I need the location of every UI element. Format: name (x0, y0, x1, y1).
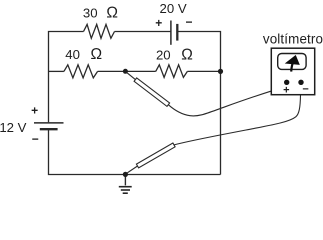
probe P2 tip wire (127, 166, 137, 173)
voltmeter needle arrow (291, 64, 292, 72)
voltmeter U1 box (271, 48, 314, 94)
probe P1 tip wire (127, 72, 136, 79)
svg-text:−: − (32, 132, 39, 146)
svg-text:40: 40 (65, 47, 80, 62)
ground stem (124, 175, 126, 186)
node B junction dot (right rail / middle wire) (218, 69, 223, 74)
voltmeter minus terminal (298, 80, 303, 85)
ground symbol bars (119, 187, 132, 194)
svg-text:−: − (185, 15, 192, 29)
voltmeter plus terminal (284, 80, 289, 85)
svg-text:30: 30 (83, 6, 98, 21)
resistor R3 20ohm zigzag (156, 65, 188, 78)
node G junction dot (ground on bottom wire) (123, 172, 128, 177)
svg-text:Ω: Ω (181, 46, 193, 63)
svg-text:20: 20 (156, 47, 171, 62)
svg-text:+: + (283, 84, 289, 96)
svg-text:12 V: 12 V (0, 120, 27, 135)
wire middle right (187, 70, 220, 72)
wire middle between R2 and node A (98, 70, 156, 72)
resistor R2 40ohm zigzag (64, 65, 98, 78)
wire top left segment (49, 32, 84, 123)
svg-text:−: − (302, 84, 308, 96)
svg-text:Ω: Ω (106, 5, 118, 22)
svg-text:voltímetro: voltímetro (263, 32, 323, 47)
probe P2 body (136, 143, 175, 168)
svg-text:+: + (31, 103, 38, 117)
battery V1 12V long plate (34, 122, 64, 124)
voltmeter display (278, 54, 306, 70)
battery V2 20V long plate (170, 21, 172, 45)
wire left lower segment (49, 129, 221, 174)
battery V1 12V short plate (40, 128, 58, 130)
svg-text:20 V: 20 V (160, 1, 187, 16)
wire top middle (115, 31, 171, 33)
svg-text:Ω: Ω (91, 46, 103, 63)
wire top right segment (177, 32, 220, 175)
node A junction dot (between R2 and R3) (123, 69, 128, 74)
resistor R1 30ohm zigzag (84, 24, 115, 38)
wire middle left (49, 70, 64, 72)
lead from probe P2 to voltmeter minus terminal (174, 82, 301, 144)
svg-text:+: + (155, 16, 162, 30)
battery V2 20V short plate (176, 24, 178, 41)
lead from probe P1 to voltmeter plus terminal (168, 82, 286, 116)
probe P1 body (134, 78, 170, 107)
